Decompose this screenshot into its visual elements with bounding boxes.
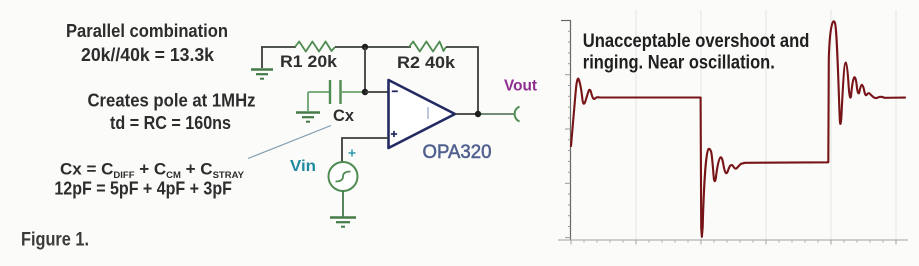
scope plot: horizontal axis with ticks: [558, 240, 908, 245]
svg-text:Unacceptable overshoot and: Unacceptable overshoot and: [583, 31, 810, 52]
resistor R2: [409, 42, 446, 52]
node: output junction: [475, 111, 481, 117]
scope plot: vertical axis with ticks: [561, 20, 571, 240]
svg-text:Parallel combination: Parallel combination: [66, 20, 228, 41]
svg-text:Cx: Cx: [333, 106, 355, 125]
callout line to Cx: [248, 126, 331, 159]
op-amp U1 OPA320: [389, 80, 456, 148]
svg-text:Creates pole at 1MHz: Creates pole at 1MHz: [88, 90, 256, 111]
node: junction at top of Cx: [362, 44, 368, 50]
svg-text:Figure 1.: Figure 1.: [21, 230, 89, 251]
svg-text:20k//40k = 13.3k: 20k//40k = 13.3k: [81, 44, 215, 65]
wire: node to op-amp minus input: [365, 91, 389, 93]
svg-text:ringing. Near oscillation.: ringing. Near oscillation.: [583, 53, 775, 74]
ground GND1 (left of R1): [251, 47, 273, 79]
capacitor Cx: [308, 80, 365, 104]
svg-text:R2 40k: R2 40k: [397, 54, 456, 72]
node: inverting input junction: [362, 89, 368, 95]
wire: R2 to output (feedback): [446, 47, 478, 114]
plus polarity mark at source: [349, 150, 356, 157]
wire: op-amp output to Vout terminal: [455, 113, 481, 115]
svg-text:td = RC = 160ns: td = RC = 160ns: [110, 112, 231, 133]
resistor R1: [295, 42, 335, 52]
svg-text:Vin: Vin: [290, 158, 316, 175]
source V1 (Vin): [329, 162, 358, 191]
wire: node down to inverting input: [364, 47, 366, 92]
ground GND2 (below Cx): [296, 92, 320, 122]
wire: R1 to R2 (through node): [335, 46, 411, 48]
terminal Vout: [515, 107, 520, 122]
svg-text:12pF = 5pF + 4pF + 3pF: 12pF = 5pF + 4pF + 3pF: [54, 179, 232, 199]
wire: Vin source to plus input: [342, 138, 389, 162]
svg-text:Vout: Vout: [504, 78, 538, 95]
svg-text:OPA320: OPA320: [423, 141, 492, 163]
scope plot: vertical grid lines: [636, 10, 896, 240]
svg-text:R1 20k: R1 20k: [280, 53, 338, 71]
wire: ground to R1: [261, 46, 296, 48]
waveform trace: [571, 21, 905, 236]
ground GND3 (below Vin source): [330, 191, 356, 227]
